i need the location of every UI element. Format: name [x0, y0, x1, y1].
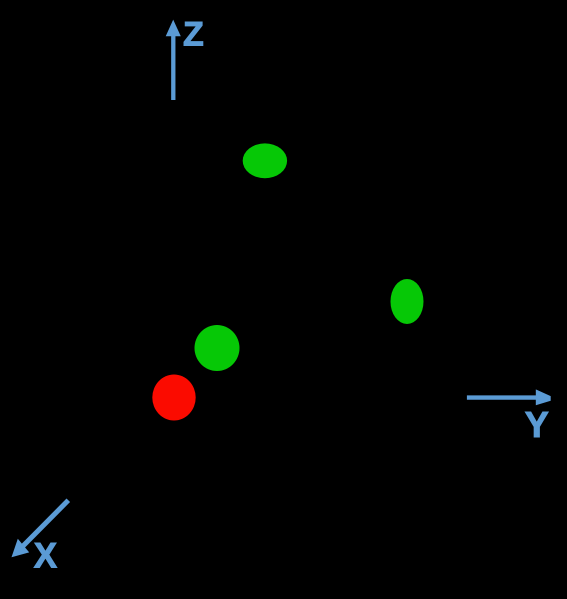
svg-text:Z: Z: [183, 15, 204, 53]
X axis: [12, 500, 69, 557]
point green right: [391, 279, 424, 324]
point red: [152, 375, 195, 421]
svg-text:Y: Y: [525, 404, 549, 445]
point green middle: [195, 325, 240, 371]
Y axis: [467, 389, 551, 405]
point green top: [243, 143, 287, 178]
Z axis: [166, 20, 181, 100]
svg-text:X: X: [34, 537, 58, 576]
